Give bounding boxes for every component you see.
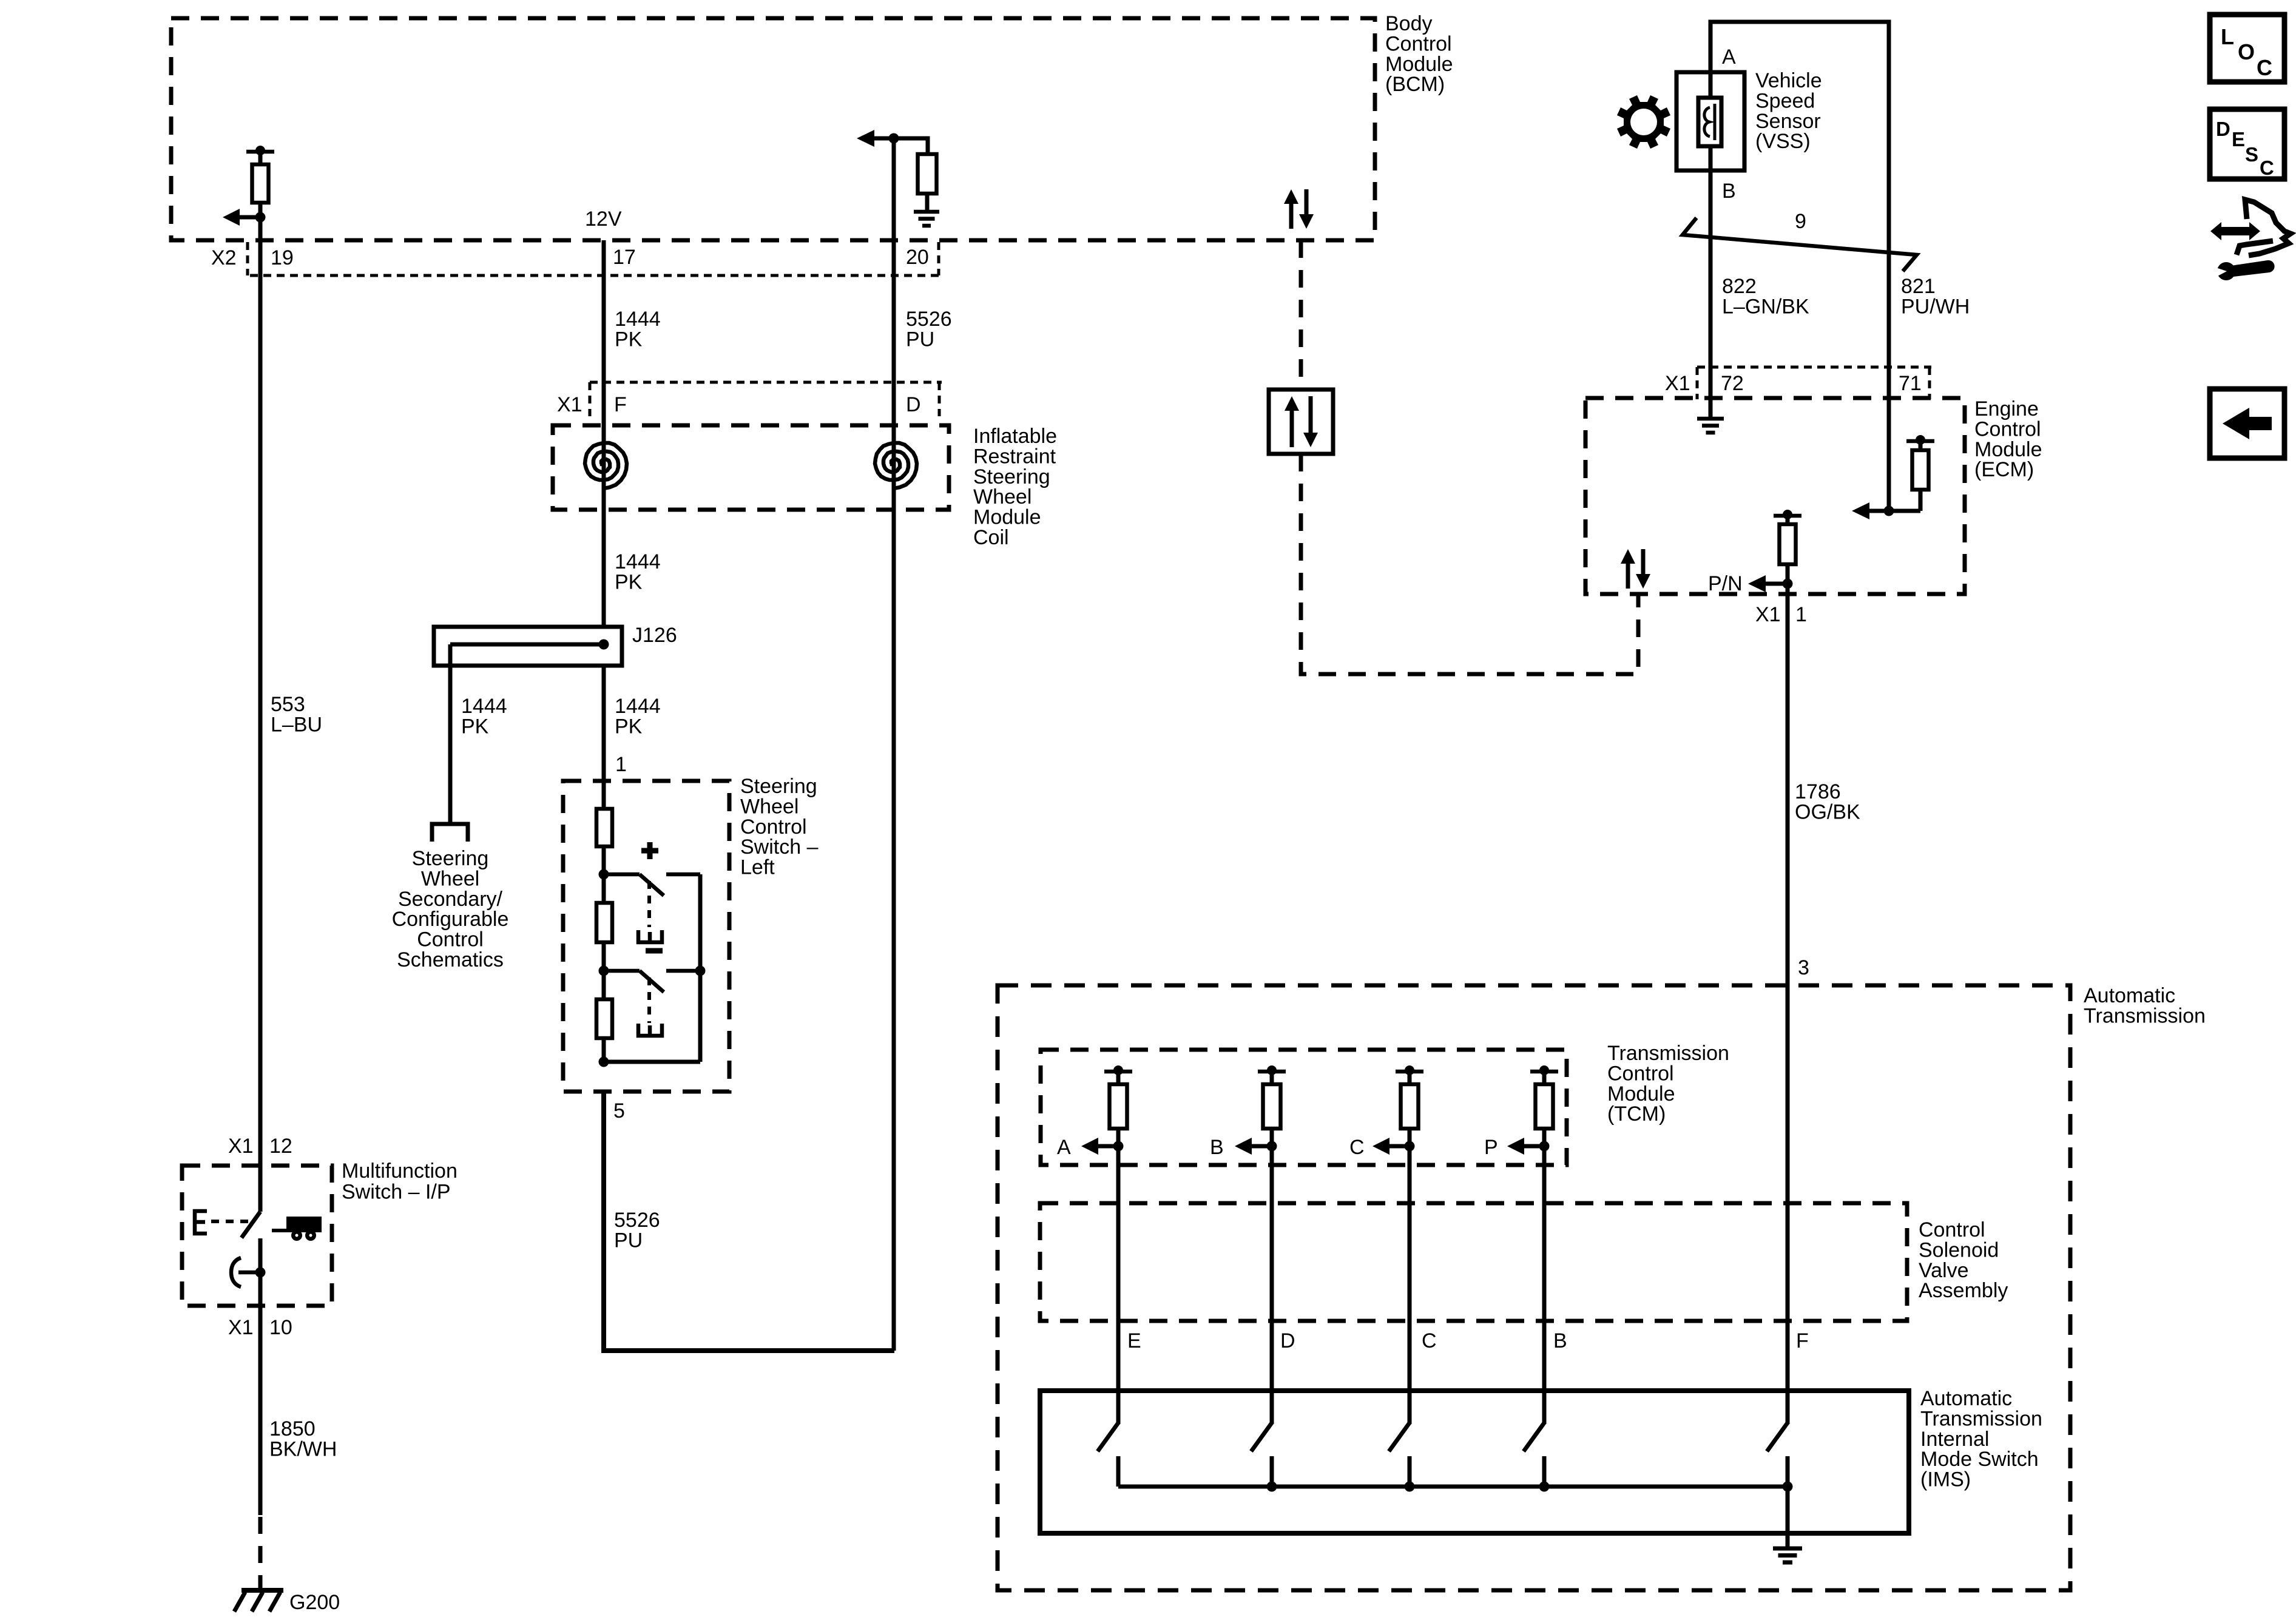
svg-text:822: 822 — [1722, 275, 1757, 298]
IMS switch F blade — [1767, 1423, 1788, 1451]
IMS common bus — [1118, 1485, 1788, 1489]
svg-text:(VSS): (VSS) — [1755, 130, 1811, 153]
svg-text:PK: PK — [461, 715, 489, 738]
BCM serial data up/down arrows — [1289, 201, 1294, 229]
branch wire 1444 PK to secondary control schematics — [448, 666, 453, 824]
ground symbol at ECM pin 72 — [1697, 417, 1724, 421]
Engine Control Module (ECM) box — [1585, 398, 1965, 594]
svg-text:3: 3 — [1798, 956, 1809, 979]
svg-text:PK: PK — [615, 328, 643, 351]
svg-text:Multifunction: Multifunction — [342, 1160, 458, 1183]
wire 821 PU/WH (to ECM 71) — [1887, 138, 1891, 511]
wire from TCM B to IMS — [1270, 1146, 1274, 1424]
svg-text:Transmission: Transmission — [1920, 1407, 2042, 1430]
svg-text:L–GN/BK: L–GN/BK — [1722, 295, 1809, 318]
node 1 of ladder — [602, 846, 606, 874]
svg-text:(ECM): (ECM) — [1974, 458, 2034, 481]
svg-text:F: F — [1796, 1329, 1809, 1352]
node: junction A — [1113, 1141, 1124, 1152]
svg-text:Internal: Internal — [1920, 1428, 1989, 1451]
svg-text:Solenoid: Solenoid — [1919, 1238, 1999, 1261]
svg-text:D: D — [906, 393, 921, 416]
svg-text:Schematics: Schematics — [397, 948, 504, 971]
svg-text:Transmission: Transmission — [1607, 1042, 1729, 1065]
node 2 of ladder — [602, 942, 606, 971]
ECM internal resistor on P/N discrete — [1774, 514, 1801, 518]
node: bus junction — [1783, 1482, 1793, 1492]
wire stub to resistor — [894, 138, 928, 154]
svg-text:Switch – I/P: Switch – I/P — [342, 1181, 451, 1204]
svg-text:C: C — [2260, 157, 2274, 179]
svg-text:Control: Control — [1919, 1218, 1985, 1241]
svg-text:Module: Module — [973, 506, 1041, 529]
wire 5526 PU from switch pin 5 (U-turn to coil D wire) — [604, 1092, 894, 1351]
svg-text:1: 1 — [1795, 603, 1807, 626]
IMS switch F lower stub — [1786, 1456, 1790, 1487]
resistor R1 in switch ladder — [596, 809, 612, 846]
svg-text:5: 5 — [613, 1099, 625, 1122]
svg-text:E: E — [2232, 128, 2245, 150]
svg-text:20: 20 — [906, 246, 929, 269]
svg-text:1444: 1444 — [615, 308, 661, 331]
schematic-navigation icon (arrows + wrench) — [2210, 222, 2260, 240]
TCM internal resistor, terminal B — [1258, 1070, 1286, 1074]
svg-text:Inflatable: Inflatable — [973, 425, 1057, 448]
svg-text:Configurable: Configurable — [392, 908, 509, 931]
svg-text:PU/WH: PU/WH — [1901, 295, 1970, 318]
svg-text:S: S — [2245, 143, 2258, 166]
svg-text:B: B — [1722, 180, 1736, 203]
svg-text:X1: X1 — [557, 393, 582, 416]
node: splice junction in J126 — [599, 640, 609, 650]
arrow A — [1081, 1138, 1098, 1155]
svg-text:E: E — [1127, 1329, 1141, 1352]
svg-text:Sensor: Sensor — [1755, 110, 1821, 133]
svg-text:Module: Module — [1385, 53, 1453, 76]
svg-text:Mode Switch: Mode Switch — [1920, 1448, 2039, 1471]
Transmission Control Module (TCM) box — [1041, 1050, 1567, 1165]
svg-text:Wheel: Wheel — [740, 795, 799, 818]
actuator E symbol — [195, 1211, 207, 1234]
svg-text:Switch –: Switch – — [740, 836, 819, 859]
wire 1444 PK from BCM pin 17 to coil connector — [602, 240, 606, 451]
svg-text:5526: 5526 — [906, 308, 952, 331]
wire 553 L-BU from BCM X2-19 down to multifunction switch — [258, 217, 263, 1212]
svg-text:1850: 1850 — [269, 1417, 316, 1440]
IMS switch B lower stub — [1542, 1456, 1547, 1487]
svg-text:(IMS): (IMS) — [1920, 1468, 1971, 1491]
svg-text:OG/BK: OG/BK — [1795, 800, 1860, 823]
svg-text:5526: 5526 — [614, 1209, 660, 1232]
svg-text:C: C — [1349, 1136, 1365, 1159]
BCM internal resistor-to-ground on circuit 5526 (pin X2-20) — [889, 133, 899, 144]
Multifunction Switch - I/P box — [182, 1166, 332, 1306]
splice pack J126 — [434, 627, 622, 666]
svg-text:Control: Control — [740, 815, 807, 839]
dashed data wire from BCM — [1299, 240, 1303, 390]
svg-text:Coil: Coil — [973, 526, 1009, 549]
reluctor gear icon — [1617, 95, 1670, 149]
Automatic Transmission box — [998, 985, 2070, 1590]
wire below blade to X1-10 — [258, 1238, 263, 1515]
ground (BCM internal) — [914, 210, 939, 214]
svg-text:A: A — [1722, 46, 1736, 69]
ECM serial data up/down arrows — [1626, 561, 1630, 589]
svg-text:X1: X1 — [1665, 372, 1690, 395]
node: junction on pin 19 output — [255, 212, 266, 223]
wire 1786 OG/BK from ECM X1-1 to IMS pin F — [1786, 594, 1790, 1424]
clockspring coil D (spiral) — [875, 443, 917, 488]
DESC icon box — [2210, 109, 2284, 179]
svg-text:Valve: Valve — [1919, 1259, 1969, 1282]
wire 5526 PU through coil D — [892, 138, 896, 1351]
wire from TCM P to IMS — [1542, 1146, 1547, 1424]
wire through VSS — [1709, 72, 1713, 234]
cam symbol — [238, 1271, 260, 1275]
switch contact S1 (volume +) — [604, 873, 640, 877]
svg-text:Automatic: Automatic — [1920, 1387, 2012, 1410]
svg-text:X1: X1 — [1755, 603, 1781, 626]
svg-text:L–BU: L–BU — [271, 713, 322, 736]
IMS switch D blade — [1251, 1423, 1272, 1451]
IMS switch B blade — [1524, 1423, 1544, 1451]
X2 connector row of BCM — [250, 274, 940, 277]
resistor R3 in switch ladder — [596, 999, 612, 1038]
svg-text:553: 553 — [271, 693, 305, 716]
svg-text:71: 71 — [1899, 372, 1922, 395]
Steering Wheel Control Switch - Left box — [563, 781, 729, 1092]
svg-text:PK: PK — [615, 570, 643, 593]
svg-text:O: O — [2238, 39, 2255, 64]
node 3 / common of ladder — [602, 1038, 606, 1062]
actuator dashes S1 — [647, 881, 651, 927]
BCM internal resistor on circuit 553 (pin X2-19) — [246, 150, 274, 154]
svg-text:G200: G200 — [289, 1591, 340, 1614]
svg-text:(BCM): (BCM) — [1385, 73, 1445, 96]
dashed wire to ground G200 — [258, 1517, 263, 1590]
node: bus junction — [1267, 1482, 1277, 1492]
node: junction P/N — [1783, 579, 1793, 589]
Automatic Transmission Internal Mode Switch (IMS) box — [1040, 1391, 1909, 1533]
svg-text:Assembly: Assembly — [1919, 1279, 2008, 1302]
actuator E symbol S2 — [638, 1024, 662, 1036]
svg-text:Restraint: Restraint — [973, 445, 1056, 468]
actuator dashed link — [211, 1220, 249, 1223]
right return bus of switch — [698, 874, 703, 1062]
svg-text:821: 821 — [1901, 275, 1936, 298]
wire from TCM C to IMS — [1408, 1146, 1412, 1424]
svg-text:1444: 1444 — [615, 550, 661, 573]
IMS switch D lower stub — [1270, 1456, 1274, 1487]
TCM internal resistor, terminal C — [1396, 1070, 1423, 1074]
svg-text:Steering: Steering — [412, 847, 489, 870]
svg-text:Vehicle: Vehicle — [1755, 69, 1822, 92]
svg-text:Engine: Engine — [1974, 397, 2039, 420]
switch contact S2 (volume -) — [604, 969, 640, 973]
TCM internal resistor, terminal P — [1530, 1070, 1558, 1074]
X1 connector row of ECM — [1697, 366, 1931, 369]
TCM internal resistor, terminal A — [1104, 1070, 1132, 1074]
svg-text:Body: Body — [1385, 12, 1433, 35]
wire 822 L-GN/BK (VSS B to ECM 72) — [1709, 234, 1713, 419]
node: junction at cam — [255, 1268, 266, 1278]
IMS switch E lower stub — [1116, 1456, 1121, 1487]
wire 1444 PK from J126 to switch pin 1 — [602, 666, 606, 809]
svg-text:10: 10 — [269, 1316, 292, 1339]
svg-text:12V: 12V — [585, 208, 622, 231]
Control Solenoid Valve Assembly box — [1040, 1203, 1907, 1321]
ground (transmission case) — [1773, 1547, 1802, 1551]
svg-text:A: A — [1057, 1136, 1071, 1159]
svg-text:Control: Control — [1607, 1062, 1674, 1085]
back-arrow icon box — [2210, 389, 2284, 458]
svg-text:12: 12 — [269, 1135, 292, 1158]
Inflatable Restraint Steering Wheel Module Coil box — [553, 425, 949, 510]
X1 connector row of steering wheel module coil — [590, 381, 942, 384]
trailer icon — [272, 1229, 288, 1232]
node: bus junction — [1405, 1482, 1415, 1492]
arrow B — [1235, 1138, 1252, 1155]
node: junction C — [1405, 1141, 1415, 1152]
IMS switch C blade — [1389, 1423, 1410, 1451]
IMS switch E blade — [1098, 1423, 1118, 1451]
node: junction P — [1539, 1141, 1550, 1152]
minus sign — [646, 948, 663, 954]
VSS pickup element box — [1698, 98, 1721, 146]
svg-text:C: C — [2257, 55, 2272, 80]
svg-text:Control: Control — [1974, 417, 2041, 441]
svg-text:72: 72 — [1721, 372, 1744, 395]
LOC icon box — [2210, 15, 2284, 82]
arrow into ECM logic (VSS signal) — [1852, 502, 1869, 519]
clockspring coil F (spiral) — [585, 443, 627, 488]
Vehicle Speed Sensor body — [1676, 72, 1744, 170]
node: bus junction — [1539, 1482, 1550, 1492]
svg-text:X1: X1 — [228, 1135, 254, 1158]
pickup coil squiggle — [1704, 104, 1715, 140]
svg-text:Secondary/: Secondary/ — [398, 888, 503, 911]
svg-text:C: C — [1422, 1329, 1437, 1352]
svg-text:D: D — [1280, 1329, 1295, 1352]
svg-text:D: D — [2216, 118, 2230, 140]
svg-text:F: F — [614, 393, 627, 416]
svg-text:Automatic: Automatic — [2084, 984, 2175, 1007]
twisted-pair crossing mark, circuit 9 — [1683, 218, 1917, 271]
svg-text:Wheel: Wheel — [973, 485, 1032, 508]
dashed data wire from DLC to ECM — [1301, 454, 1638, 674]
svg-text:19: 19 — [271, 246, 294, 269]
svg-text:P: P — [1484, 1136, 1498, 1159]
actuator dashes S2 — [647, 977, 651, 1023]
node: junction pin 71 — [1884, 506, 1894, 516]
svg-text:Module: Module — [1974, 438, 2042, 461]
ECM internal resistor on circuit 821 — [1906, 439, 1934, 444]
svg-text:Steering: Steering — [973, 465, 1050, 488]
plus sign — [641, 848, 658, 854]
svg-text:PU: PU — [614, 1229, 643, 1252]
wire through coil F — [602, 382, 606, 627]
P/N arrow — [1748, 575, 1766, 592]
svg-text:(TCM): (TCM) — [1607, 1102, 1666, 1126]
svg-text:B: B — [1553, 1329, 1567, 1352]
svg-text:Control: Control — [417, 928, 484, 951]
svg-text:B: B — [1210, 1136, 1224, 1159]
svg-text:Left: Left — [740, 856, 775, 879]
actuator E symbol S1 (rotated E) — [638, 930, 662, 942]
svg-text:P/N: P/N — [1708, 572, 1743, 595]
arrow C — [1373, 1138, 1389, 1155]
IMS switch C lower stub — [1408, 1456, 1412, 1487]
signal arrow (to further BCM circuitry) — [223, 209, 240, 226]
svg-text:BK/WH: BK/WH — [269, 1437, 337, 1460]
svg-text:PK: PK — [615, 715, 643, 738]
wire from bus to transmission case ground — [1786, 1487, 1790, 1548]
svg-text:X2: X2 — [211, 246, 237, 269]
svg-text:X1: X1 — [228, 1316, 254, 1339]
svg-text:Speed: Speed — [1755, 89, 1815, 112]
ground G200 (chassis) — [241, 1588, 283, 1593]
off-page connector bracket — [432, 824, 468, 842]
svg-text:J126: J126 — [632, 624, 677, 647]
svg-text:Module: Module — [1607, 1082, 1675, 1106]
svg-text:1444: 1444 — [461, 695, 507, 718]
data link connector box with arrows — [1269, 390, 1333, 454]
svg-text:1: 1 — [615, 753, 627, 776]
node: junction B — [1267, 1141, 1277, 1152]
svg-text:17: 17 — [613, 246, 636, 269]
switch blade (multifunction) — [241, 1212, 260, 1238]
svg-text:PU: PU — [906, 328, 934, 351]
arrow P — [1507, 1138, 1524, 1155]
svg-text:1444: 1444 — [615, 695, 661, 718]
resistor R2 in switch ladder — [596, 903, 612, 942]
svg-text:Control: Control — [1385, 32, 1452, 55]
VSS wiring loop (terminal A to circuit 821) — [1710, 22, 1889, 138]
svg-text:9: 9 — [1795, 210, 1806, 233]
svg-text:L: L — [2221, 24, 2234, 49]
svg-text:Steering: Steering — [740, 775, 817, 798]
svg-text:Transmission: Transmission — [2084, 1004, 2206, 1027]
wire from TCM A to IMS — [1116, 1146, 1121, 1424]
svg-text:1786: 1786 — [1795, 780, 1841, 803]
Body Control Module (BCM) box — [171, 18, 1375, 240]
svg-text:Wheel: Wheel — [421, 867, 479, 890]
